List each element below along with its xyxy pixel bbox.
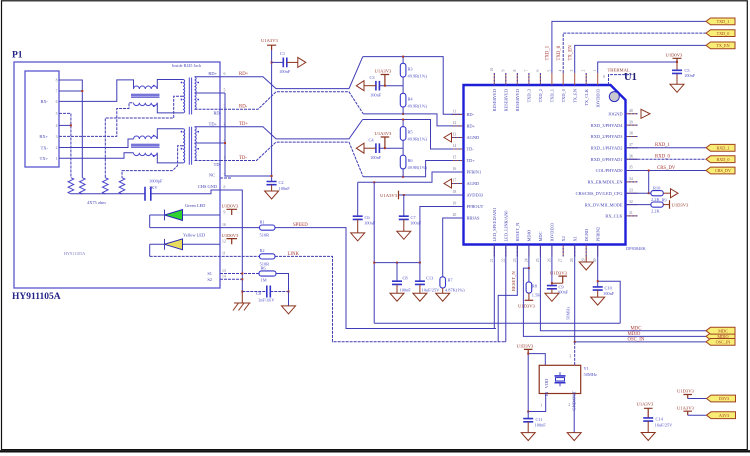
capacitor C11 100nF xyxy=(527,412,529,419)
svg-text:RXD_2/PHYAD3: RXD_2/PHYAD3 xyxy=(591,134,624,139)
svg-text:U1A3V3: U1A3V3 xyxy=(375,131,393,136)
svg-text:R3: R3 xyxy=(408,67,414,72)
svg-text:C5: C5 xyxy=(685,68,691,73)
svg-text:2: 2 xyxy=(56,146,58,150)
svg-text:49.9R(1%): 49.9R(1%) xyxy=(408,74,428,79)
svg-text:RD+: RD+ xyxy=(467,124,476,129)
wire PFBOUT pin19 xyxy=(420,207,464,263)
power U1D3V3 to D3V3 flag xyxy=(683,395,692,399)
svg-text:RXD_1/PHYAD2: RXD_1/PHYAD2 xyxy=(591,146,623,151)
power U1D0V3 at C5 xyxy=(673,58,682,62)
svg-text:RX_DV/MII_MODE: RX_DV/MII_MODE xyxy=(585,202,623,207)
choke T1A core lines xyxy=(131,94,160,97)
svg-text:RXD_1: RXD_1 xyxy=(655,143,671,148)
svg-text:11: 11 xyxy=(453,110,457,114)
svg-text:1.5K: 1.5K xyxy=(532,293,541,298)
svg-text:R2: R2 xyxy=(260,248,265,253)
wire 75R bottom rail xyxy=(71,193,145,195)
power U1A3V3 at C14 xyxy=(644,408,653,418)
svg-text:10uF/25V: 10uF/25V xyxy=(422,288,441,293)
svg-text:6: 6 xyxy=(536,70,540,72)
wire RD- from jack xyxy=(220,92,363,114)
resistor R5 49.9R xyxy=(402,120,404,149)
wire TX_EN xyxy=(575,45,706,73)
svg-text:VDD: VDD xyxy=(544,379,549,389)
svg-text:U1D0V3: U1D0V3 xyxy=(222,233,240,238)
svg-text:U1A3V3: U1A3V3 xyxy=(375,69,393,74)
svg-text:8: 8 xyxy=(56,79,58,83)
AGND arrow at C4 xyxy=(356,143,364,153)
svg-text:9: 9 xyxy=(224,210,226,214)
Y1 pin3 OUT stub xyxy=(574,342,576,365)
wire pin5 pair xyxy=(59,113,71,177)
capacitor C7 100nF xyxy=(403,195,405,216)
capacitor C8 100nF xyxy=(396,263,398,282)
svg-text:SPEED: SPEED xyxy=(293,223,308,228)
transformer T2B left winding xyxy=(183,129,185,163)
svg-text:RD-: RD- xyxy=(467,112,475,117)
svg-text:TXD_1: TXD_1 xyxy=(717,19,730,24)
Y1 pin1 IN loop xyxy=(528,394,546,412)
wire center tap row5 xyxy=(195,92,226,94)
svg-text:C2: C2 xyxy=(279,180,284,185)
U1 right pin stubs xyxy=(626,114,638,216)
svg-text:PFBIN1: PFBIN1 xyxy=(467,170,482,175)
resistor R6 49.9R xyxy=(402,148,404,177)
wire S1 row xyxy=(220,273,259,275)
svg-text:IOVDD33: IOVDD33 xyxy=(550,222,555,241)
svg-text:C13: C13 xyxy=(426,275,434,280)
wire PFB rail xyxy=(374,262,420,264)
svg-text:R6: R6 xyxy=(408,158,414,163)
wire S2 row xyxy=(220,278,242,280)
svg-text:RD-: RD- xyxy=(213,111,221,116)
svg-text:35: 35 xyxy=(629,166,633,170)
svg-text:18: 18 xyxy=(453,190,457,194)
flag RXD_0 xyxy=(706,156,735,163)
svg-text:S2: S2 xyxy=(207,277,212,282)
svg-text:HY911105A: HY911105A xyxy=(64,251,85,256)
svg-text:17: 17 xyxy=(453,179,457,183)
svg-text:U1D3V3: U1D3V3 xyxy=(677,389,695,394)
wire RD+ from jack xyxy=(220,57,363,89)
wire center tap vertical x225 xyxy=(225,93,272,176)
wire MDIO pin24 xyxy=(523,245,706,337)
wire center tap row4 xyxy=(195,142,226,144)
svg-text:R7: R7 xyxy=(448,277,454,282)
svg-text:AVDD33: AVDD33 xyxy=(467,193,484,198)
svg-text:C10: C10 xyxy=(605,286,613,291)
svg-text:RD+: RD+ xyxy=(208,71,217,76)
capacitor C5 100nF xyxy=(676,62,678,84)
svg-text:TD-: TD- xyxy=(467,147,475,152)
wire RD bottom rail to pin12 xyxy=(363,114,463,126)
svg-text:11: 11 xyxy=(222,252,226,256)
svg-text:U1A3V3: U1A3V3 xyxy=(637,402,655,407)
svg-text:6: 6 xyxy=(56,100,58,104)
transformer T2B right winding xyxy=(195,127,197,161)
svg-text:IOGND: IOGND xyxy=(608,112,622,117)
svg-text:19: 19 xyxy=(453,202,457,206)
svg-text:U1D3V3: U1D3V3 xyxy=(518,303,536,308)
svg-text:DP83848K: DP83848K xyxy=(626,246,647,251)
svg-text:510R: 510R xyxy=(260,233,270,238)
svg-text:RESERVED: RESERVED xyxy=(515,89,520,111)
transformer T1B core xyxy=(189,78,191,115)
wire pin6 RX- to choke xyxy=(59,80,134,102)
svg-text:Green LED: Green LED xyxy=(185,203,205,208)
svg-text:TXD_1: TXD_1 xyxy=(550,89,555,102)
svg-text:MDC: MDC xyxy=(631,326,642,331)
wire IOVDD33 pin26 xyxy=(551,245,553,286)
junction pin7 xyxy=(81,90,83,92)
svg-text:4X75 ohm: 4X75 ohm xyxy=(87,200,106,205)
svg-text:4.87K(1%): 4.87K(1%) xyxy=(445,288,465,293)
svg-text:R8: R8 xyxy=(532,284,538,289)
svg-text:U1: U1 xyxy=(624,72,637,83)
wire PFBIN1 drop to rail xyxy=(373,182,375,323)
svg-text:C14: C14 xyxy=(656,417,664,422)
transformer T1B right winding xyxy=(195,77,197,110)
wire RXD_0 xyxy=(626,158,707,160)
svg-text:RX+: RX+ xyxy=(39,134,48,139)
svg-text:TX_EN: TX_EN xyxy=(572,88,577,103)
transformer T1B left winding xyxy=(183,80,185,113)
wire TD+ from jack xyxy=(220,120,363,139)
svg-text:C11: C11 xyxy=(536,417,543,422)
svg-text:13: 13 xyxy=(453,133,457,137)
svg-text:MDIO: MDIO xyxy=(628,332,641,337)
svg-text:1nF/1KV: 1nF/1KV xyxy=(258,298,275,303)
svg-text:TX+: TX+ xyxy=(40,156,49,161)
svg-text:3: 3 xyxy=(56,135,58,139)
flag TX_EN xyxy=(706,42,735,49)
svg-text:TD+: TD+ xyxy=(209,121,218,126)
ground below C8 xyxy=(390,293,404,301)
capacitor C8 1nF/1KV xyxy=(242,291,288,293)
power U1D3V3 at R8 xyxy=(525,299,534,301)
wire Y1 VDD xyxy=(528,354,545,412)
ground below C10 xyxy=(591,297,605,305)
resistor R8 1.5K pull-up xyxy=(528,268,530,282)
svg-text:U1D0V3: U1D0V3 xyxy=(666,52,684,57)
svg-text:5: 5 xyxy=(547,70,551,72)
svg-text:7: 7 xyxy=(56,90,58,94)
wire PFBIN1 pin16 xyxy=(358,172,464,182)
wire CRS_DV xyxy=(626,170,707,172)
svg-text:13: 13 xyxy=(222,269,226,273)
svg-text:4: 4 xyxy=(56,124,58,128)
svg-text:TX_EN: TX_EN xyxy=(569,45,574,61)
svg-text:100nF: 100nF xyxy=(279,186,291,191)
svg-text:22: 22 xyxy=(501,258,505,262)
svg-text:CRS_DV: CRS_DV xyxy=(715,168,731,173)
svg-text:RX-: RX- xyxy=(40,99,48,104)
svg-text:3: 3 xyxy=(569,354,571,358)
svg-text:R1: R1 xyxy=(260,219,265,224)
svg-text:25: 25 xyxy=(536,258,540,262)
choke T2A polarity dots xyxy=(153,135,155,137)
svg-text:Y1: Y1 xyxy=(584,366,589,371)
flag A3V3 xyxy=(707,412,736,419)
wire OSC_IN pin28 xyxy=(575,245,706,342)
choke T1A common-mode top winding xyxy=(134,86,158,89)
resistor 75R a xyxy=(68,178,74,194)
junction S1/S2/cap row xyxy=(241,273,243,275)
svg-text:X2: X2 xyxy=(561,236,566,241)
capacitor C4 100nF xyxy=(376,143,380,153)
ground below C5 xyxy=(670,84,684,92)
wire choke to transformer top xyxy=(157,80,183,90)
AGND arrow right of C1 xyxy=(298,57,306,67)
svg-text:R5: R5 xyxy=(408,130,414,135)
svg-text:RX_ER/MDIX_EN: RX_ER/MDIX_EN xyxy=(588,180,624,185)
svg-text:S1: S1 xyxy=(207,271,212,276)
svg-text:36: 36 xyxy=(629,154,633,158)
transformer T1B polarity dots xyxy=(181,82,183,84)
svg-text:510R: 510R xyxy=(260,261,270,266)
svg-text:LED_SPEED/AN1: LED_SPEED/AN1 xyxy=(492,208,497,242)
svg-text:TXD_0: TXD_0 xyxy=(557,45,562,60)
svg-text:32: 32 xyxy=(629,200,633,204)
svg-text:AGND: AGND xyxy=(467,181,480,186)
resistor 75R c xyxy=(103,178,109,194)
resistor R1 510R xyxy=(260,225,276,230)
svg-text:R10: R10 xyxy=(653,186,661,191)
resistor R9 2.2K xyxy=(626,204,651,206)
svg-text:IOVDD33: IOVDD33 xyxy=(595,88,600,107)
IOGND arrow pin40 xyxy=(641,109,650,118)
AGND arrow at C3 xyxy=(356,81,364,91)
svg-text:TXD_0: TXD_0 xyxy=(717,31,730,36)
IOGND arrow at R10 xyxy=(671,189,679,198)
ground below R6 xyxy=(288,292,290,306)
svg-text:TX-: TX- xyxy=(41,145,49,150)
power U1A3V3 at pin18 xyxy=(399,194,464,196)
choke T2A bottom winding xyxy=(134,153,158,156)
U1 left pin stubs xyxy=(452,115,464,219)
svg-text:TXD_1: TXD_1 xyxy=(546,45,551,60)
svg-text:RESET_N: RESET_N xyxy=(511,271,516,291)
svg-text:15: 15 xyxy=(453,156,457,160)
svg-text:16: 16 xyxy=(453,167,457,171)
svg-text:RXD_0: RXD_0 xyxy=(655,155,671,160)
wire pin1 TX+ to choke xyxy=(59,153,134,159)
chassis ground xyxy=(233,292,251,311)
svg-text:37: 37 xyxy=(629,143,633,147)
AGND arrow pin17 xyxy=(444,179,452,188)
resistor R10 2.2K xyxy=(649,192,651,194)
svg-text:2: 2 xyxy=(568,403,570,407)
svg-text:14: 14 xyxy=(222,275,226,279)
svg-text:39: 39 xyxy=(629,120,633,124)
svg-text:21: 21 xyxy=(490,258,494,262)
svg-text:X1: X1 xyxy=(572,236,577,241)
svg-text:C3: C3 xyxy=(370,75,376,80)
wire RD top rail to pin11 xyxy=(363,57,464,115)
transformer T2B polarity dots xyxy=(181,131,183,133)
capacitor C10 100nF xyxy=(593,287,603,290)
power U1A3V3 at RD termination xyxy=(381,75,390,86)
wire RD- lead xyxy=(195,108,221,110)
ground below C6 xyxy=(351,233,365,241)
resistor 75R d xyxy=(119,178,125,194)
wire choke T2A to transformer bottom xyxy=(157,153,183,163)
svg-text:24: 24 xyxy=(524,258,528,262)
svg-text:27: 27 xyxy=(559,258,563,262)
svg-text:2KV: 2KV xyxy=(149,185,158,190)
wire TD+ lead xyxy=(195,126,221,128)
wire pin2 TX- to choke xyxy=(59,139,134,148)
svg-text:R4: R4 xyxy=(408,96,414,101)
svg-text:RBIAS: RBIAS xyxy=(467,216,480,221)
wire LED_CFG link to CRS_DV xyxy=(626,171,649,194)
svg-text:RESERVED: RESERVED xyxy=(492,89,497,111)
U1 thermal pad via xyxy=(609,92,619,102)
U1 top pin stubs xyxy=(494,73,597,85)
wire R5/R6 mid node xyxy=(379,147,403,149)
wire TD- from jack xyxy=(220,142,363,177)
wire RESET_N pin23 xyxy=(498,245,517,342)
svg-text:100nF: 100nF xyxy=(684,73,696,78)
wire TD- lead xyxy=(195,160,221,162)
svg-text:OSC_IN: OSC_IN xyxy=(628,338,645,343)
capacitor C14 16uF xyxy=(643,418,653,421)
svg-text:NC: NC xyxy=(209,173,215,178)
resistor R6 1M xyxy=(276,274,289,292)
svg-text:DGND: DGND xyxy=(584,229,589,242)
capacitor C1 100nF xyxy=(272,61,284,63)
wire SPEED net xyxy=(150,228,496,329)
svg-text:1M: 1M xyxy=(261,278,267,283)
svg-text:100nF: 100nF xyxy=(400,288,412,293)
choke T1A polarity dots xyxy=(153,85,155,87)
svg-text:U1D3V3: U1D3V3 xyxy=(550,270,568,275)
wire pin8 pair xyxy=(59,80,82,178)
svg-text:RX_CLK: RX_CLK xyxy=(605,214,623,219)
svg-text:Inside RJ45 Jack: Inside RJ45 Jack xyxy=(172,63,202,68)
wire LINK net xyxy=(150,256,505,341)
svg-text:12: 12 xyxy=(222,240,226,244)
svg-text:LED_LINK/AN0: LED_LINK/AN0 xyxy=(504,210,509,242)
wire TD bottom rail to pin15 xyxy=(363,161,463,177)
svg-text:OSC_IN: OSC_IN xyxy=(716,340,731,345)
svg-text:TXD_0: TXD_0 xyxy=(561,88,566,102)
svg-text:C8: C8 xyxy=(403,275,409,280)
svg-text:MDIO: MDIO xyxy=(527,230,532,242)
AGND arrow pin13 xyxy=(444,133,452,142)
svg-text:C1: C1 xyxy=(280,51,285,56)
svg-text:THERMAL: THERMAL xyxy=(608,68,630,73)
capacitor C13 10uF xyxy=(419,263,421,282)
flag RXD_1 xyxy=(706,144,735,151)
flag CRS_DV xyxy=(706,167,735,174)
wire pin22 LED_LINK xyxy=(505,245,506,342)
junction C1 tap xyxy=(271,61,273,63)
svg-text:2.2K: 2.2K xyxy=(651,208,660,213)
svg-text:U1A3V3: U1A3V3 xyxy=(677,405,695,410)
power U1D3V3 at R9 xyxy=(669,200,671,209)
svg-text:1: 1 xyxy=(540,404,542,408)
svg-text:R9: R9 xyxy=(662,197,668,202)
capacitor C2 100nF xyxy=(267,182,277,185)
transformer T2B core xyxy=(189,127,191,165)
svg-text:A3V3: A3V3 xyxy=(719,413,729,418)
svg-text:28: 28 xyxy=(570,258,574,262)
wire pin21 LED_SPEED xyxy=(493,245,495,329)
svg-text:HY911105A: HY911105A xyxy=(12,292,61,302)
svg-text:MDC: MDC xyxy=(538,231,543,241)
wire CHS GND vertical xyxy=(220,190,242,292)
svg-text:RXD_0: RXD_0 xyxy=(716,157,729,162)
U1 bottom pin stubs xyxy=(494,245,597,257)
wire cap to CHS GND pin xyxy=(151,190,220,194)
svg-text:PFBIN2: PFBIN2 xyxy=(595,227,600,242)
svg-text:38: 38 xyxy=(629,132,633,136)
ground DGND pin29 xyxy=(585,257,587,263)
svg-text:C4: C4 xyxy=(369,137,375,142)
svg-text:TX_CLK: TX_CLK xyxy=(584,88,589,106)
power U1A3V3 at C1 xyxy=(267,45,276,50)
svg-text:23: 23 xyxy=(513,258,517,262)
svg-text:PFBOUT: PFBOUT xyxy=(467,204,484,209)
svg-text:49.9R(1%): 49.9R(1%) xyxy=(408,137,428,142)
resistor 75R b xyxy=(80,178,86,194)
resistor R7 4.87K xyxy=(443,218,464,277)
svg-text:1: 1 xyxy=(593,70,597,72)
ground below C11 xyxy=(521,433,535,441)
svg-text:0: 0 xyxy=(603,75,605,79)
flag TXD_1 xyxy=(706,18,735,25)
svg-text:49.9R(1%): 49.9R(1%) xyxy=(408,103,428,108)
wire PFBIN2 pin30 xyxy=(374,245,620,324)
capacitor C3 100nF xyxy=(376,81,380,91)
svg-text:TXD_2: TXD_2 xyxy=(538,89,543,102)
svg-text:RESERVED: RESERVED xyxy=(504,89,509,111)
svg-text:8: 8 xyxy=(513,70,517,72)
svg-text:50MHz: 50MHz xyxy=(566,307,571,320)
svg-text:3: 3 xyxy=(570,70,574,72)
power U1D3V3 at Y1 xyxy=(524,349,533,353)
capacitor C6 100nF xyxy=(357,182,359,216)
svg-text:RESET_N: RESET_N xyxy=(515,222,520,242)
ground below R7 xyxy=(436,293,450,301)
svg-text:CHS GND: CHS GND xyxy=(198,184,217,189)
ground below C7 xyxy=(397,231,411,239)
wire pin4 xyxy=(59,124,71,126)
svg-text:49.9R(1%): 49.9R(1%) xyxy=(408,165,428,170)
wire center-tap supply rail xyxy=(271,50,273,182)
Y1 pin2 GND xyxy=(573,394,575,433)
svg-text:100nF: 100nF xyxy=(279,69,291,74)
power U1A3V3 at TD termination xyxy=(381,137,390,148)
wire IOVDD33 pin1 to supply xyxy=(598,62,677,73)
svg-text:C6: C6 xyxy=(365,215,371,220)
svg-text:4: 4 xyxy=(559,70,563,72)
svg-text:10: 10 xyxy=(490,68,494,72)
svg-text:U1A3V3: U1A3V3 xyxy=(380,193,398,198)
svg-text:MDC: MDC xyxy=(718,328,728,333)
wire R3/R4 mid node xyxy=(379,85,403,87)
wire choke T2A to transformer top xyxy=(157,129,183,139)
op IC U1 DP83848K outline xyxy=(464,85,626,245)
svg-text:9: 9 xyxy=(501,70,505,72)
svg-text:26: 26 xyxy=(547,258,551,262)
svg-text:6: 6 xyxy=(224,72,226,76)
junction row4 tap xyxy=(224,142,226,144)
wire MDC pin25 xyxy=(540,245,706,331)
ground below C13 xyxy=(413,293,427,301)
